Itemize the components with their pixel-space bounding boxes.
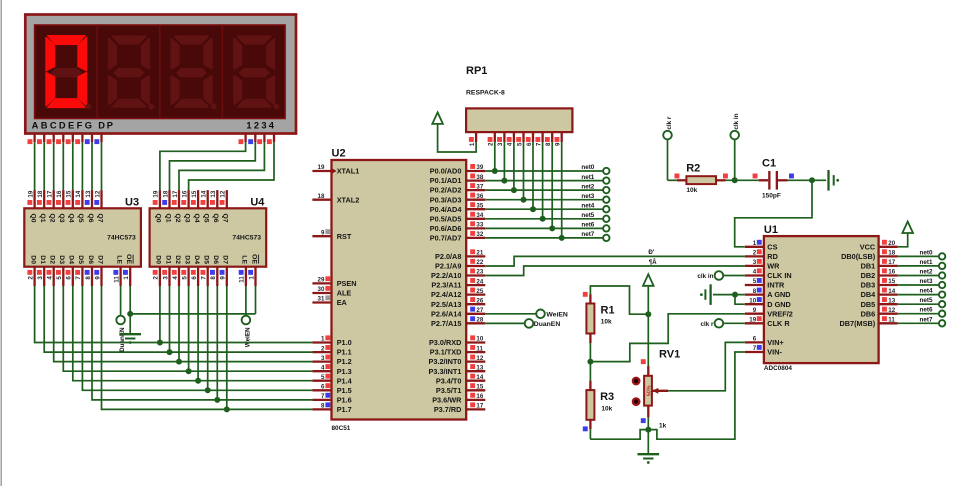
svg-text:P2.3/A11: P2.3/A11 xyxy=(431,281,461,290)
svg-text:P0.3/AD3: P0.3/AD3 xyxy=(430,195,462,204)
svg-text:P2.7/A15: P2.7/A15 xyxy=(431,319,461,328)
svg-text:18: 18 xyxy=(162,190,169,197)
svg-text:10k: 10k xyxy=(601,406,612,413)
svg-text:LE: LE xyxy=(241,255,248,264)
svg-text:P1.3: P1.3 xyxy=(337,367,352,376)
svg-text:4: 4 xyxy=(47,276,54,280)
svg-text:INTR: INTR xyxy=(767,281,785,290)
svg-text:23: 23 xyxy=(476,269,483,276)
svg-text:D0: D0 xyxy=(155,255,162,264)
svg-text:D6: D6 xyxy=(87,255,94,264)
svg-text:11: 11 xyxy=(476,345,483,352)
svg-text:net6: net6 xyxy=(581,222,594,229)
svg-text:12: 12 xyxy=(888,307,895,314)
svg-text:ALE: ALE xyxy=(337,289,352,298)
svg-text:P3.2/INT0: P3.2/INT0 xyxy=(429,357,462,366)
svg-text:DB6: DB6 xyxy=(861,309,876,318)
svg-text:D2: D2 xyxy=(49,255,56,264)
svg-text:3: 3 xyxy=(753,259,757,266)
svg-text:19: 19 xyxy=(27,190,34,197)
svg-text:Q4: Q4 xyxy=(68,214,75,223)
svg-text:DuanEN: DuanEN xyxy=(534,321,561,328)
svg-text:U3: U3 xyxy=(125,197,139,209)
svg-text:C1: C1 xyxy=(762,158,776,170)
svg-text:13: 13 xyxy=(888,297,895,304)
svg-text:R1: R1 xyxy=(601,305,615,317)
svg-text:D7: D7 xyxy=(96,255,103,264)
svg-text:6: 6 xyxy=(191,276,198,280)
svg-text:16: 16 xyxy=(476,393,483,400)
svg-text:15: 15 xyxy=(66,190,73,197)
svg-text:VIN+: VIN+ xyxy=(767,338,783,347)
svg-text:2: 2 xyxy=(488,142,495,146)
svg-text:RP1: RP1 xyxy=(466,65,487,77)
svg-text:11: 11 xyxy=(888,317,895,324)
svg-text:RST: RST xyxy=(337,232,352,241)
svg-text:net6: net6 xyxy=(920,307,933,314)
svg-text:D1: D1 xyxy=(39,255,46,264)
svg-text:net2: net2 xyxy=(920,269,933,276)
svg-text:2: 2 xyxy=(321,345,325,352)
svg-text:25: 25 xyxy=(476,288,483,295)
svg-text:9: 9 xyxy=(753,307,757,314)
svg-text:14: 14 xyxy=(75,190,82,197)
svg-text:net5: net5 xyxy=(581,212,594,219)
svg-text:12: 12 xyxy=(220,190,227,197)
svg-text:3: 3 xyxy=(321,355,325,362)
svg-text:VREF/2: VREF/2 xyxy=(767,309,793,318)
svg-text:Q5: Q5 xyxy=(203,214,210,223)
svg-text:1: 1 xyxy=(469,142,476,146)
svg-text:P2.6/A14: P2.6/A14 xyxy=(431,309,462,318)
svg-text:1: 1 xyxy=(321,336,325,343)
svg-text:WR: WR xyxy=(767,262,780,271)
svg-text:RV1: RV1 xyxy=(659,349,680,361)
svg-text:D4: D4 xyxy=(68,255,75,264)
svg-text:P2.4/A12: P2.4/A12 xyxy=(431,290,461,299)
svg-text:net1: net1 xyxy=(920,259,933,266)
svg-text:P1.6: P1.6 xyxy=(337,396,352,405)
svg-text:Q1: Q1 xyxy=(164,214,171,223)
svg-text:DuanEN: DuanEN xyxy=(119,327,126,352)
svg-text:ADC0804: ADC0804 xyxy=(764,365,793,372)
svg-text:RD: RD xyxy=(767,252,778,261)
svg-text:D6: D6 xyxy=(212,255,219,264)
svg-text:9: 9 xyxy=(555,142,562,146)
svg-text:D7: D7 xyxy=(222,255,229,264)
svg-text:8: 8 xyxy=(321,403,325,410)
svg-text:DB1: DB1 xyxy=(861,262,876,271)
svg-text:P0.5/AD5: P0.5/AD5 xyxy=(430,214,462,223)
svg-text:Q6: Q6 xyxy=(212,214,219,223)
svg-text:33: 33 xyxy=(476,222,483,229)
svg-text:15: 15 xyxy=(888,278,895,285)
svg-text:7: 7 xyxy=(753,345,757,352)
svg-text:13: 13 xyxy=(85,190,92,197)
svg-text:U4: U4 xyxy=(250,197,265,209)
svg-text:150pF: 150pF xyxy=(762,193,781,200)
svg-text:R2: R2 xyxy=(686,162,700,174)
svg-text:D5: D5 xyxy=(77,255,84,264)
svg-text:35: 35 xyxy=(476,202,483,209)
svg-text:net0: net0 xyxy=(920,249,933,256)
svg-text:P0.4/AD4: P0.4/AD4 xyxy=(430,205,463,214)
svg-text:38: 38 xyxy=(476,174,483,181)
svg-text:P3.7/RD: P3.7/RD xyxy=(434,405,462,414)
svg-text:¶Â: ¶Â xyxy=(649,259,657,266)
svg-text:P3.4/T0: P3.4/T0 xyxy=(436,376,462,385)
svg-text:12: 12 xyxy=(94,190,101,197)
svg-text:P0.7/AD7: P0.7/AD7 xyxy=(430,234,462,243)
svg-text:19: 19 xyxy=(749,317,756,324)
svg-text:28: 28 xyxy=(476,317,483,324)
svg-text:A GND: A GND xyxy=(767,290,790,299)
svg-text:RESPACK-8: RESPACK-8 xyxy=(466,89,505,96)
svg-text:11: 11 xyxy=(113,276,120,283)
svg-text:P0.2/AD2: P0.2/AD2 xyxy=(430,186,462,195)
svg-text:VIN-: VIN- xyxy=(767,348,782,357)
svg-text:OE: OE xyxy=(125,254,132,264)
svg-text:D2: D2 xyxy=(174,255,181,264)
svg-text:PSEN: PSEN xyxy=(337,279,357,288)
svg-text:net1: net1 xyxy=(581,174,594,181)
svg-text:3: 3 xyxy=(497,142,504,146)
svg-text:6: 6 xyxy=(321,384,325,391)
svg-text:10: 10 xyxy=(749,297,756,304)
svg-text:EA: EA xyxy=(337,298,348,307)
svg-text:16: 16 xyxy=(888,269,895,276)
svg-text:10k: 10k xyxy=(601,319,612,326)
svg-text:7: 7 xyxy=(535,142,542,146)
svg-text:9: 9 xyxy=(321,229,325,236)
svg-text:D3: D3 xyxy=(58,255,65,264)
svg-text:XTAL1: XTAL1 xyxy=(337,167,360,176)
svg-text:14: 14 xyxy=(888,288,895,295)
svg-text:net4: net4 xyxy=(920,288,933,295)
svg-text:5: 5 xyxy=(56,276,63,280)
svg-text:Q5: Q5 xyxy=(77,214,84,223)
svg-text:net3: net3 xyxy=(581,193,594,200)
svg-text:DB5: DB5 xyxy=(861,300,876,309)
svg-text:2: 2 xyxy=(753,250,757,257)
svg-text:17: 17 xyxy=(888,259,895,266)
svg-text:2: 2 xyxy=(27,276,34,280)
svg-text:27: 27 xyxy=(476,307,483,314)
svg-text:Q0: Q0 xyxy=(29,214,36,223)
svg-text:15: 15 xyxy=(191,190,198,197)
svg-text:Q1: Q1 xyxy=(39,214,46,223)
svg-text:D1: D1 xyxy=(164,255,171,264)
svg-text:DB3: DB3 xyxy=(861,281,876,290)
svg-text:4: 4 xyxy=(507,142,514,146)
svg-text:OE: OE xyxy=(250,254,257,264)
svg-text:DB2: DB2 xyxy=(861,271,876,280)
svg-text:4: 4 xyxy=(172,276,179,280)
svg-text:P3.0/RXD: P3.0/RXD xyxy=(429,338,461,347)
svg-text:6: 6 xyxy=(753,336,757,343)
svg-text:P3.1/TXD: P3.1/TXD xyxy=(430,348,462,357)
svg-text:P1.1: P1.1 xyxy=(337,348,352,357)
svg-text:24: 24 xyxy=(476,278,483,285)
svg-text:5: 5 xyxy=(181,276,188,280)
svg-text:Q7: Q7 xyxy=(96,214,103,223)
svg-text:19: 19 xyxy=(318,164,325,171)
svg-text:Q0: Q0 xyxy=(155,214,162,223)
svg-text:26: 26 xyxy=(476,297,483,304)
svg-text:6: 6 xyxy=(66,276,73,280)
svg-text:3: 3 xyxy=(162,276,169,280)
svg-text:clk in: clk in xyxy=(733,113,740,129)
svg-text:7: 7 xyxy=(321,393,325,400)
svg-text:1k: 1k xyxy=(659,423,667,430)
svg-text:ABCDEFG: ABCDEFG xyxy=(32,120,95,130)
svg-text:2: 2 xyxy=(153,276,160,280)
svg-text:1234: 1234 xyxy=(246,120,276,130)
svg-text:11: 11 xyxy=(239,276,246,283)
svg-text:P1.0: P1.0 xyxy=(337,338,352,347)
svg-text:Q3: Q3 xyxy=(183,214,190,223)
svg-text:22: 22 xyxy=(476,259,483,266)
svg-text:4: 4 xyxy=(321,364,325,371)
svg-text:5: 5 xyxy=(321,374,325,381)
svg-text:P0.0/AD0: P0.0/AD0 xyxy=(430,167,462,176)
svg-text:net0: net0 xyxy=(581,164,594,171)
svg-text:9: 9 xyxy=(94,276,101,280)
svg-text:VCC: VCC xyxy=(860,242,876,251)
svg-text:17: 17 xyxy=(476,403,483,410)
svg-text:DB7(MSB): DB7(MSB) xyxy=(840,319,876,328)
svg-text:32: 32 xyxy=(476,231,483,238)
svg-text:Ð': Ð' xyxy=(648,249,654,256)
svg-text:39: 39 xyxy=(476,164,483,171)
svg-text:7: 7 xyxy=(201,276,208,280)
svg-text:12: 12 xyxy=(476,355,483,362)
svg-text:D5: D5 xyxy=(203,255,210,264)
svg-text:CLK R: CLK R xyxy=(767,319,790,328)
svg-text:XTAL2: XTAL2 xyxy=(337,195,360,204)
svg-text:16: 16 xyxy=(56,190,63,197)
svg-text:P1.5: P1.5 xyxy=(337,386,352,395)
svg-text:8: 8 xyxy=(85,276,92,280)
svg-text:17: 17 xyxy=(172,190,179,197)
svg-text:P3.6/WR: P3.6/WR xyxy=(432,396,462,405)
svg-text:5: 5 xyxy=(753,278,757,285)
svg-text:15: 15 xyxy=(476,384,483,391)
svg-text:net3: net3 xyxy=(920,278,933,285)
svg-text:Q2: Q2 xyxy=(174,214,181,223)
svg-text:WeiEN: WeiEN xyxy=(244,327,251,347)
svg-text:8: 8 xyxy=(545,142,552,146)
svg-text:8: 8 xyxy=(753,288,757,295)
svg-text:clk r: clk r xyxy=(666,116,673,130)
svg-text:1: 1 xyxy=(753,240,757,247)
svg-text:P1.4: P1.4 xyxy=(337,376,353,385)
svg-text:D GND: D GND xyxy=(767,300,791,309)
svg-text:10k: 10k xyxy=(686,187,697,194)
svg-text:3: 3 xyxy=(37,276,44,280)
svg-text:34: 34 xyxy=(476,212,483,219)
svg-text:R3: R3 xyxy=(600,391,614,403)
svg-text:net4: net4 xyxy=(581,202,594,209)
svg-text:P3.3/INT1: P3.3/INT1 xyxy=(429,367,462,376)
svg-text:17: 17 xyxy=(47,190,54,197)
svg-text:Q7: Q7 xyxy=(222,214,229,223)
svg-text:P0.6/AD6: P0.6/AD6 xyxy=(430,224,462,233)
svg-text:18: 18 xyxy=(318,193,325,200)
svg-text:1: 1 xyxy=(123,276,130,280)
svg-text:9: 9 xyxy=(220,276,227,280)
svg-text:5: 5 xyxy=(516,142,523,146)
svg-text:21: 21 xyxy=(476,250,483,257)
svg-text:13: 13 xyxy=(210,190,217,197)
svg-text:30: 30 xyxy=(318,286,325,293)
svg-text:P0.1/AD1: P0.1/AD1 xyxy=(430,176,462,185)
svg-text:U2: U2 xyxy=(332,147,346,159)
svg-text:37: 37 xyxy=(476,183,483,190)
svg-text:P3.5/T1: P3.5/T1 xyxy=(436,386,462,395)
svg-text:net5: net5 xyxy=(920,297,933,304)
svg-text:31: 31 xyxy=(318,296,325,303)
svg-text:18: 18 xyxy=(888,250,895,257)
svg-text:1: 1 xyxy=(248,276,255,280)
svg-text:DP: DP xyxy=(98,120,115,130)
svg-text:20: 20 xyxy=(888,240,895,247)
svg-text:13: 13 xyxy=(476,364,483,371)
svg-text:16: 16 xyxy=(181,190,188,197)
svg-text:29: 29 xyxy=(318,277,325,284)
svg-text:Q6: Q6 xyxy=(87,214,94,223)
svg-text:4: 4 xyxy=(753,269,757,276)
svg-text:36: 36 xyxy=(476,193,483,200)
svg-text:D0: D0 xyxy=(29,255,36,264)
svg-text:clk r: clk r xyxy=(701,321,715,328)
svg-text:18: 18 xyxy=(37,190,44,197)
svg-text:LE: LE xyxy=(115,255,122,264)
svg-text:10: 10 xyxy=(476,336,483,343)
svg-text:clk in: clk in xyxy=(697,273,713,280)
svg-text:P2.1/A9: P2.1/A9 xyxy=(435,262,461,271)
svg-text:DB0(LSB): DB0(LSB) xyxy=(841,252,876,261)
svg-text:74HC573: 74HC573 xyxy=(232,234,261,241)
svg-text:CLK IN: CLK IN xyxy=(767,271,791,280)
svg-text:19: 19 xyxy=(153,190,160,197)
svg-text:Q3: Q3 xyxy=(58,214,65,223)
svg-text:Q2: Q2 xyxy=(49,214,56,223)
svg-text:P1.7: P1.7 xyxy=(337,405,352,414)
svg-text:net7: net7 xyxy=(920,316,933,323)
svg-text:80C51: 80C51 xyxy=(332,425,351,432)
svg-text:P2.5/A13: P2.5/A13 xyxy=(431,300,461,309)
svg-text:6: 6 xyxy=(526,142,533,146)
svg-text:D4: D4 xyxy=(193,255,200,264)
svg-text:7: 7 xyxy=(75,276,82,280)
svg-text:U1: U1 xyxy=(764,224,778,236)
svg-text:Q4: Q4 xyxy=(193,214,200,223)
svg-text:net7: net7 xyxy=(581,231,594,238)
svg-text:14: 14 xyxy=(201,190,208,197)
svg-text:WeiEN: WeiEN xyxy=(546,311,567,318)
svg-text:74HC573: 74HC573 xyxy=(107,234,136,241)
svg-text:14: 14 xyxy=(476,374,483,381)
svg-text:net2: net2 xyxy=(581,183,594,190)
svg-text:8: 8 xyxy=(210,276,217,280)
svg-text:DB4: DB4 xyxy=(861,290,877,299)
svg-text:P1.2: P1.2 xyxy=(337,357,352,366)
svg-text:50%: 50% xyxy=(646,385,652,396)
svg-text:CS: CS xyxy=(767,242,777,251)
svg-text:P2.0/A8: P2.0/A8 xyxy=(435,252,461,261)
svg-text:P2.2/A10: P2.2/A10 xyxy=(431,271,461,280)
svg-text:D3: D3 xyxy=(183,255,190,264)
